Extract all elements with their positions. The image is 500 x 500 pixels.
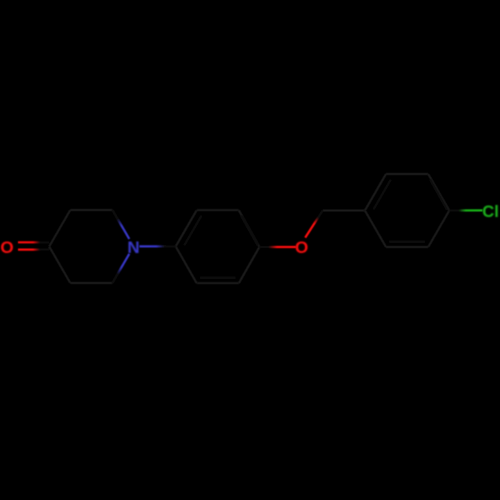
bond N-C1' [139, 245, 175, 247]
bond N-C6 [112, 254, 129, 283]
benzene ring2 [365, 174, 386, 211]
bond O-C4' [259, 246, 296, 248]
bond N-C2 [112, 210, 129, 239]
svg-text:Cl: Cl [482, 203, 499, 221]
ring2 aromatic inner lines [374, 180, 391, 210]
bond Cl-C4'' [449, 209, 482, 211]
carbonyl double bond O=C4 [18, 242, 49, 249]
wire C4-C3 [49, 210, 70, 247]
wire C2 half to N [112, 210, 123, 228]
wire CH2-C1pp [323, 209, 365, 211]
svg-text:O: O [295, 238, 308, 257]
svg-text:N: N [127, 238, 139, 257]
wire C3-C2 [70, 209, 112, 211]
svg-text:O: O [0, 238, 13, 257]
wire C6 half to N [112, 265, 123, 283]
ring1 aromatic inner lines [184, 216, 201, 246]
benzene ring1 [176, 210, 197, 246]
wire C4-C5 [49, 247, 70, 284]
wire C5-C6 [70, 282, 112, 284]
bond O-CH2 [305, 211, 323, 238]
piperidinone ring carbon bonds [49, 174, 449, 283]
